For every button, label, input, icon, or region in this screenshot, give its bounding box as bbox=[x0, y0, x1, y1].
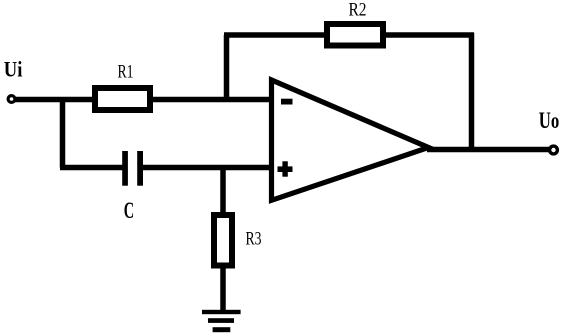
capacitor C plate right bbox=[137, 151, 143, 186]
wire: feedback riser from inverting input node bbox=[224, 35, 230, 101]
op-amp inverting input marker (-) bbox=[281, 99, 293, 105]
op-amp non-inverting input marker (+) horizontal bar bbox=[278, 166, 293, 172]
wire: op-amp output to terminal Uo bbox=[427, 147, 550, 153]
wire: R3 to ground bbox=[220, 266, 226, 311]
wire: feedback top, riser to R2 bbox=[224, 32, 327, 38]
svg-text:Uo: Uo bbox=[539, 108, 560, 133]
input terminal (node Ui) bbox=[8, 96, 15, 103]
wire: capacitor branch left segment bbox=[60, 165, 123, 171]
wire: capacitor to op-amp non-inverting input bbox=[142, 165, 272, 171]
resistor R1 bbox=[95, 88, 150, 110]
wire: junction node A down to capacitor branch bbox=[60, 97, 66, 168]
svg-text:Ui: Ui bbox=[4, 56, 23, 81]
op-amp U1 bbox=[272, 80, 429, 200]
wire: input terminal to R1 bbox=[13, 97, 95, 103]
svg-text:C: C bbox=[124, 198, 134, 223]
resistor R3 bbox=[214, 215, 232, 266]
wire: output riser down to output net bbox=[469, 33, 475, 150]
svg-text:R3: R3 bbox=[246, 230, 262, 250]
svg-text:R2: R2 bbox=[349, 1, 367, 21]
wire: junction node B down to R3 bbox=[220, 165, 226, 215]
resistor R2 bbox=[327, 24, 383, 46]
op-amp non-inverting input marker (+) vertical bar bbox=[282, 161, 287, 176]
output terminal (node Uo) bbox=[550, 146, 558, 154]
svg-text:R1: R1 bbox=[118, 63, 134, 83]
capacitor C plate left bbox=[122, 151, 128, 186]
wire: R2 to output riser bbox=[383, 32, 474, 38]
ground bbox=[202, 310, 241, 332]
wire: R1 to op-amp inverting input bbox=[150, 97, 272, 103]
